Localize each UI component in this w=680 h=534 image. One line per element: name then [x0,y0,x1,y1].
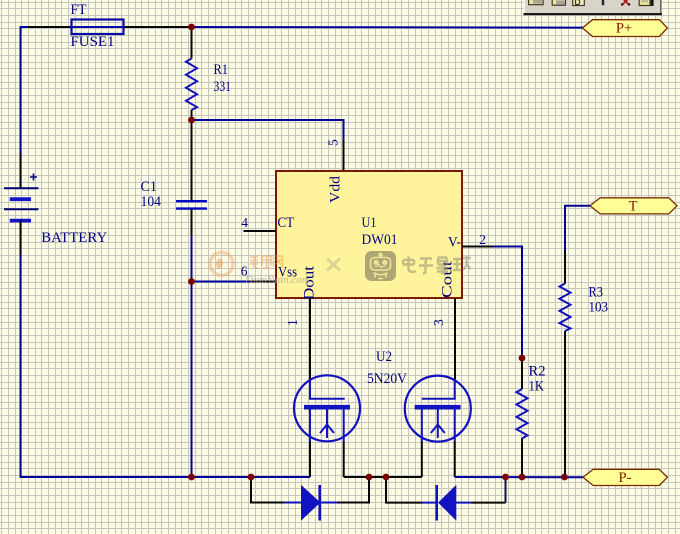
watermark dianyuan ring [210,252,233,275]
wire C1 top [191,120,193,201]
watermark robot logo [365,251,396,281]
mosfet Q-right arrow [431,425,445,434]
mosfet Q-left bottom pins [310,442,344,478]
wire fuse left pin [28,26,71,28]
resistor R3 stub top [564,250,566,284]
resistor R2 stub top [521,358,523,389]
resistor R1 zigzag [186,59,197,111]
toolbar icon 2 [552,0,565,5]
mosfet Q-right bottom pins [422,442,455,478]
svg-text:P-: P- [619,470,632,486]
connector P+ [582,20,667,37]
resistor R2 zigzag [517,389,528,439]
svg-text:103: 103 [589,300,609,316]
node C1/Vss junction [188,278,195,285]
wire Vss stub [192,281,252,283]
svg-text:CT: CT [278,215,295,231]
node rail/diode-right-left junction [383,474,390,481]
resistor R1 stub bottom [191,110,193,120]
svg-text:2: 2 [479,232,486,247]
battery BATTERY plates [4,187,38,189]
svg-text:P+: P+ [616,21,632,37]
mosfet Q-left circle [294,375,360,441]
diode D-right triangle [439,486,456,520]
svg-text:BATTERY: BATTERY [41,230,107,246]
resistor R3 zigzag [560,284,571,332]
svg-text:C1: C1 [141,179,158,195]
svg-text:104: 104 [141,194,162,210]
node R1/C1/Vdd junction [188,117,195,124]
diode D-right leads [386,477,422,503]
toolbar icon 3 [573,0,585,6]
pin 5 [343,140,345,171]
svg-text:Vdd: Vdd [328,175,344,203]
svg-text:FT: FT [71,2,87,18]
IC U1 body [276,171,462,298]
node rail/R3 junction [561,474,568,481]
node rail/diode-left junction [248,474,255,481]
mosfet Q-right channel bar [415,405,461,410]
svg-text:5N20V: 5N20V [367,371,407,387]
battery wire bottom black [20,220,22,256]
mosfet Q-left leads [310,410,344,443]
wire to Vss junction [191,236,193,477]
svg-text:T: T [629,199,638,215]
watermark dianzi-xingqiu cjk text [403,256,471,275]
node rail/C1 junction [188,474,195,481]
wire C1 bottom [191,209,193,236]
svg-text:U1: U1 [362,215,377,231]
svg-text:R2: R2 [529,364,546,380]
mosfet Q-right gate [422,379,455,399]
toolbar separator [602,0,604,5]
pin 3 wire [454,298,456,380]
wire T to R3 [565,206,590,250]
toolbar fragment top right [524,0,663,15]
battery wire top black [20,153,22,188]
node rail/diode-left-right junction [366,474,373,481]
toolbar icon red tool [622,0,630,5]
svg-text:U2: U2 [376,349,392,365]
svg-text:V-: V- [448,234,461,250]
wire R1 to pin5 [192,120,344,141]
pin 2 stub [462,246,493,248]
mosfet Q-left gate [310,379,345,399]
node rail/diode-right-right junction [502,474,509,481]
svg-text:DW01: DW01 [362,232,398,248]
pin 1 wire [309,298,311,380]
diode D-left right lead [320,502,338,504]
wire bottom rail right (blue) [455,476,583,478]
diode D-left triangle [302,486,320,520]
svg-text:R3: R3 [589,285,604,301]
resistor R2 stub bottom [521,439,523,478]
capacitor C1 [176,200,207,202]
diode D-left cathode bar [318,485,321,521]
svg-text:R1: R1 [214,62,229,78]
svg-text:1: 1 [285,319,300,326]
connector P- [583,469,667,485]
wire pin2 to R2 [493,247,522,359]
svg-text:331: 331 [214,79,232,95]
svg-text:3: 3 [431,319,446,326]
pin 4 stub [244,230,277,232]
fuse FT body [72,20,124,35]
toolbar icon 1 [529,0,544,5]
diode D-right right lead [456,502,472,504]
svg-text:5: 5 [326,139,341,146]
node rail/R2 junction [519,474,526,481]
wire fuse right pin to junction [125,26,193,28]
watermark dianyuan cjk text [250,255,283,268]
resistor R1 stub top [191,27,193,59]
wire top left blue segment [21,27,30,153]
wire battery down to bottom rail [21,255,311,477]
svg-text:4: 4 [241,215,248,230]
mosfet Q-right leads [422,410,455,443]
svg-text:1K: 1K [529,379,545,395]
mosfet Q-left channel bar [304,405,350,410]
svg-text:FUSE1: FUSE1 [71,34,115,50]
watermark x mark [327,259,340,271]
toolbar icon 5 [639,0,650,6]
mosfet Q-right circle [405,376,471,442]
diode D-left leads [251,477,284,503]
node fuse/R1 junction [188,24,195,31]
wire bottom rail mid (black) [344,476,422,478]
diode D-right cathode bar [435,485,438,521]
wire top to P+ [192,26,584,29]
mosfet Q-left arrow [320,425,334,434]
battery plus sign [30,174,37,181]
pin 6 [250,281,276,283]
resistor R3 stub bottom [564,331,566,477]
connector T [590,198,677,214]
svg-text:DianYuan.com: DianYuan.com [244,274,310,286]
node R2 top junction [519,355,526,362]
